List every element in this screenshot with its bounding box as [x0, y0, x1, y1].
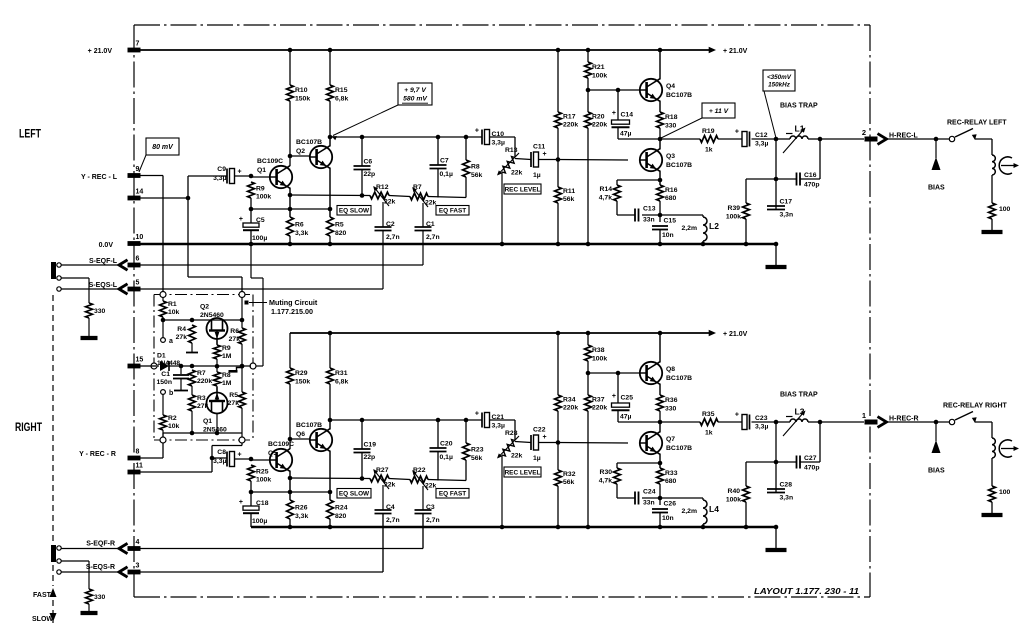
svg-text:R2: R2 [168, 415, 177, 422]
svg-text:R19: R19 [702, 128, 715, 135]
svg-text:+: + [543, 151, 547, 158]
svg-text:REC LEVEL: REC LEVEL [505, 469, 541, 476]
svg-text:220k: 220k [563, 405, 578, 412]
svg-text:EQ FAST: EQ FAST [439, 491, 466, 498]
svg-text:+: + [735, 129, 739, 136]
svg-text:R28: R28 [505, 430, 518, 437]
svg-text:R8: R8 [471, 164, 480, 171]
svg-text:R14: R14 [600, 186, 613, 193]
svg-text:BC109C: BC109C [268, 441, 294, 448]
svg-text:Q1: Q1 [203, 418, 212, 425]
svg-text:R18: R18 [665, 114, 678, 121]
svg-text:2,7n: 2,7n [386, 234, 400, 241]
svg-text:C1: C1 [161, 371, 170, 378]
svg-text:C16: C16 [804, 172, 817, 179]
svg-text:C15: C15 [664, 218, 677, 225]
svg-text:680: 680 [665, 195, 677, 202]
svg-text:Q2: Q2 [296, 148, 305, 155]
svg-text:8: 8 [136, 449, 140, 456]
svg-text:R39: R39 [728, 205, 741, 212]
svg-text:L3: L3 [795, 407, 805, 417]
svg-text:150k: 150k [295, 379, 310, 386]
svg-text:LAYOUT 1.177. 230 - 11: LAYOUT 1.177. 230 - 11 [754, 587, 860, 596]
svg-text:C1: C1 [426, 221, 435, 228]
svg-text:R7: R7 [197, 370, 206, 377]
svg-text:2,7n: 2,7n [426, 517, 440, 524]
svg-text:1N4448: 1N4448 [157, 360, 180, 367]
svg-text:R34: R34 [563, 397, 576, 404]
svg-text:REC LEVEL: REC LEVEL [505, 186, 541, 193]
svg-text:C13: C13 [643, 206, 656, 213]
svg-text:4,7k: 4,7k [599, 195, 612, 202]
svg-text:56k: 56k [471, 455, 483, 462]
svg-text:330: 330 [665, 123, 677, 130]
svg-text:Q5: Q5 [268, 450, 277, 457]
svg-text:R21: R21 [592, 64, 605, 71]
svg-text:R40: R40 [728, 488, 741, 495]
svg-text:56k: 56k [563, 196, 575, 203]
svg-text:BC107B: BC107B [296, 139, 322, 146]
svg-text:33n: 33n [643, 500, 655, 507]
svg-text:C12: C12 [755, 132, 768, 139]
svg-text:R24: R24 [335, 505, 348, 512]
svg-text:S-EQF-L: S-EQF-L [89, 258, 118, 265]
svg-text:R12: R12 [376, 184, 389, 191]
svg-text:C22: C22 [533, 427, 546, 434]
svg-text:R16: R16 [665, 187, 678, 194]
svg-text:R10: R10 [295, 87, 308, 94]
svg-text:470p: 470p [804, 182, 820, 189]
svg-text:330: 330 [94, 308, 106, 315]
svg-text:1M: 1M [222, 380, 232, 387]
svg-text:EQ SLOW: EQ SLOW [339, 491, 370, 498]
svg-text:C7: C7 [440, 158, 449, 165]
svg-text:27k: 27k [228, 400, 240, 407]
svg-text:56k: 56k [471, 172, 483, 179]
svg-text:C18: C18 [256, 500, 269, 507]
svg-text:2,2m: 2,2m [682, 508, 698, 515]
svg-text:R5: R5 [229, 392, 238, 399]
svg-text:a: a [169, 338, 173, 345]
svg-text:0.0V: 0.0V [99, 242, 114, 249]
svg-text:RIGHT: RIGHT [15, 420, 42, 434]
svg-text:R9: R9 [256, 186, 265, 193]
svg-text:R37: R37 [592, 397, 605, 404]
svg-text:<350mV: <350mV [767, 74, 792, 81]
svg-text:C26: C26 [664, 501, 677, 508]
svg-text:330: 330 [665, 406, 677, 413]
svg-text:0,1µ: 0,1µ [440, 454, 453, 461]
svg-text:2N5460: 2N5460 [200, 312, 224, 319]
svg-text:220k: 220k [197, 378, 212, 385]
svg-text:BC107B: BC107B [666, 445, 692, 452]
svg-text:C4: C4 [386, 504, 395, 511]
svg-text:FAST: FAST [33, 592, 52, 599]
svg-text:S-EQF-R: S-EQF-R [86, 541, 115, 548]
svg-text:R33: R33 [665, 470, 678, 477]
svg-text:27k: 27k [229, 336, 241, 343]
svg-text:BIAS TRAP: BIAS TRAP [780, 103, 818, 110]
svg-text:Y - REC - L: Y - REC - L [81, 174, 118, 181]
svg-text:BC107B: BC107B [666, 375, 692, 382]
svg-text:3,3µ: 3,3µ [755, 424, 768, 431]
svg-text:10k: 10k [168, 423, 180, 430]
svg-text:1k: 1k [705, 430, 713, 437]
svg-text:R36: R36 [665, 397, 678, 404]
svg-text:11: 11 [136, 463, 144, 470]
svg-text:+: + [239, 499, 243, 506]
svg-text:+: + [238, 452, 242, 459]
svg-text:C19: C19 [364, 442, 377, 449]
svg-text:Muting Circuit: Muting Circuit [269, 298, 318, 307]
svg-text:R3: R3 [197, 395, 206, 402]
svg-text:2,2m: 2,2m [682, 225, 698, 232]
svg-text:H-REC-L: H-REC-L [889, 132, 918, 139]
svg-text:D1: D1 [157, 353, 166, 360]
svg-text:Q4: Q4 [666, 83, 675, 90]
svg-text:C17: C17 [780, 199, 793, 206]
svg-text:100k: 100k [592, 356, 607, 363]
svg-text:R31: R31 [335, 370, 348, 377]
svg-text:R13: R13 [505, 147, 518, 154]
svg-text:1.177.215.00: 1.177.215.00 [271, 307, 313, 316]
svg-text:3: 3 [136, 563, 140, 570]
svg-text:680: 680 [665, 478, 677, 485]
svg-text:REC-RELAY RIGHT: REC-RELAY RIGHT [943, 403, 1008, 410]
svg-text:SLOW: SLOW [32, 616, 53, 623]
svg-text:+ 9,7 V: + 9,7 V [404, 87, 427, 94]
svg-text:C20: C20 [440, 441, 453, 448]
svg-text:Q7: Q7 [666, 436, 675, 443]
svg-text:3,3k: 3,3k [295, 230, 308, 237]
svg-text:3,3µ: 3,3µ [492, 423, 505, 430]
svg-text:Y - REC - R: Y - REC - R [79, 451, 116, 458]
svg-text:R6: R6 [295, 222, 304, 229]
svg-text:1µ: 1µ [533, 172, 541, 179]
svg-text:5: 5 [136, 280, 140, 287]
svg-text:b: b [169, 390, 173, 397]
svg-text:Q1: Q1 [257, 167, 266, 174]
svg-text:4,7k: 4,7k [599, 478, 612, 485]
svg-text:+: + [238, 169, 242, 176]
svg-text:47µ: 47µ [620, 131, 632, 138]
svg-text:C11: C11 [533, 144, 545, 151]
svg-text:1M: 1M [222, 353, 232, 360]
svg-text:330: 330 [94, 594, 106, 601]
svg-text:10n: 10n [662, 232, 674, 239]
svg-text:L2: L2 [709, 221, 719, 231]
svg-text:100k: 100k [256, 477, 271, 484]
svg-text:22k: 22k [425, 200, 437, 207]
svg-text:33n: 33n [643, 217, 655, 224]
svg-text:100k: 100k [726, 214, 741, 221]
svg-text:BIAS TRAP: BIAS TRAP [780, 392, 818, 399]
svg-text:R17: R17 [563, 114, 576, 121]
svg-text:R7: R7 [413, 184, 422, 191]
svg-text:R8: R8 [222, 372, 231, 379]
svg-text:Q6: Q6 [296, 431, 305, 438]
svg-text:100: 100 [999, 206, 1011, 213]
svg-text:3,3µ: 3,3µ [492, 140, 505, 147]
svg-text:L1: L1 [795, 124, 805, 134]
svg-text:+: + [543, 434, 547, 441]
svg-text:BC109C: BC109C [257, 158, 283, 165]
svg-text:C5: C5 [256, 217, 265, 224]
svg-text:C25: C25 [621, 395, 634, 402]
svg-text:10k: 10k [168, 309, 180, 316]
svg-text:Q3: Q3 [666, 153, 675, 160]
svg-text:C8: C8 [217, 449, 226, 456]
svg-text:150k: 150k [295, 96, 310, 103]
svg-text:22k: 22k [511, 170, 523, 177]
svg-text:0,1µ: 0,1µ [440, 171, 453, 178]
svg-text:L4: L4 [709, 504, 719, 514]
svg-text:+: + [735, 412, 739, 419]
svg-text:+: + [475, 411, 479, 418]
svg-text:150kHz: 150kHz [768, 82, 791, 89]
svg-text:470p: 470p [804, 465, 820, 472]
svg-text:R27: R27 [376, 467, 389, 474]
svg-text:22k: 22k [425, 483, 437, 490]
svg-text:22k: 22k [384, 199, 396, 206]
svg-text:H-REC-R: H-REC-R [889, 415, 919, 422]
svg-text:15: 15 [136, 357, 144, 364]
svg-text:R25: R25 [256, 469, 269, 476]
svg-text:C6: C6 [364, 159, 373, 166]
svg-text:220k: 220k [592, 122, 607, 129]
svg-text:R30: R30 [600, 469, 613, 476]
svg-text:C2: C2 [386, 221, 395, 228]
svg-text:100k: 100k [256, 194, 271, 201]
svg-text:R38: R38 [592, 347, 605, 354]
svg-text:+ 21.0V: + 21.0V [723, 48, 748, 55]
svg-text:6,8k: 6,8k [335, 379, 348, 386]
svg-text:C9: C9 [217, 166, 226, 173]
svg-text:S-EQS-L: S-EQS-L [89, 282, 118, 289]
svg-text:220k: 220k [592, 405, 607, 412]
svg-text:580 mV: 580 mV [403, 96, 428, 103]
svg-text:C14: C14 [621, 112, 634, 119]
svg-text:10: 10 [136, 234, 144, 241]
svg-text:3,3n: 3,3n [780, 212, 794, 219]
svg-text:C28: C28 [780, 482, 793, 489]
svg-text:R26: R26 [295, 505, 308, 512]
svg-text:+: + [239, 216, 243, 223]
svg-text:R29: R29 [295, 370, 308, 377]
svg-text:6: 6 [136, 256, 140, 263]
svg-text:22p: 22p [364, 454, 376, 461]
svg-text:3,3k: 3,3k [295, 513, 308, 520]
svg-text:R20: R20 [592, 114, 605, 121]
svg-text:3,3µ: 3,3µ [213, 458, 226, 465]
svg-text:S-EQS-R: S-EQS-R [86, 564, 115, 571]
svg-text:100k: 100k [592, 73, 607, 80]
svg-text:EQ SLOW: EQ SLOW [339, 208, 370, 215]
svg-text:REC-RELAY LEFT: REC-RELAY LEFT [947, 120, 1007, 127]
svg-text:EQ FAST: EQ FAST [439, 208, 466, 215]
svg-text:150n: 150n [157, 379, 173, 386]
svg-text:C24: C24 [643, 489, 656, 496]
svg-text:+ 21.0V: + 21.0V [723, 331, 748, 338]
svg-text:100k: 100k [726, 497, 741, 504]
svg-text:820: 820 [335, 230, 347, 237]
svg-text:C3: C3 [426, 504, 435, 511]
svg-text:R15: R15 [335, 87, 348, 94]
svg-text:22k: 22k [384, 482, 396, 489]
svg-text:Q2: Q2 [200, 304, 209, 311]
svg-text:BIAS: BIAS [928, 185, 945, 192]
svg-text:R4: R4 [177, 326, 186, 333]
svg-text:R11: R11 [563, 188, 575, 195]
svg-text:220k: 220k [563, 122, 578, 129]
svg-text:3,3n: 3,3n [780, 495, 794, 502]
svg-text:+ 11 V: + 11 V [709, 108, 730, 115]
svg-text:7: 7 [136, 41, 140, 48]
svg-text:+: + [612, 393, 616, 400]
svg-text:R6: R6 [230, 328, 239, 335]
svg-text:BC107B: BC107B [296, 422, 322, 429]
svg-text:R35: R35 [702, 411, 715, 418]
svg-text:1k: 1k [705, 147, 713, 154]
svg-text:6,8k: 6,8k [335, 96, 348, 103]
svg-text:100µ: 100µ [252, 235, 267, 242]
svg-text:BC107B: BC107B [666, 162, 692, 169]
svg-text:C23: C23 [755, 415, 768, 422]
svg-text:27k: 27k [176, 334, 188, 341]
svg-text:BIAS: BIAS [928, 468, 945, 475]
svg-text:+: + [612, 110, 616, 117]
svg-text:80 mV: 80 mV [152, 144, 174, 151]
svg-text:Q8: Q8 [666, 366, 675, 373]
svg-text:LEFT: LEFT [19, 127, 41, 141]
svg-text:14: 14 [136, 189, 144, 196]
svg-text:1µ: 1µ [533, 455, 541, 462]
svg-text:100µ: 100µ [252, 518, 267, 525]
svg-text:+: + [475, 128, 479, 135]
svg-text:100: 100 [999, 489, 1011, 496]
svg-text:BC107B: BC107B [666, 92, 692, 99]
svg-text:+ 21.0V: + 21.0V [88, 48, 113, 55]
svg-text:1: 1 [862, 411, 866, 420]
svg-text:2,7n: 2,7n [386, 517, 400, 524]
svg-text:R32: R32 [563, 471, 576, 478]
svg-text:4: 4 [136, 539, 140, 546]
svg-text:R23: R23 [471, 447, 484, 454]
svg-text:R5: R5 [335, 222, 344, 229]
svg-text:56k: 56k [563, 479, 575, 486]
svg-text:2: 2 [862, 128, 866, 137]
svg-text:22k: 22k [511, 453, 523, 460]
svg-text:2,7n: 2,7n [426, 234, 440, 241]
svg-text:22p: 22p [364, 171, 376, 178]
svg-text:820: 820 [335, 513, 347, 520]
svg-text:R1: R1 [168, 301, 177, 308]
svg-text:R22: R22 [413, 467, 426, 474]
svg-text:3,3µ: 3,3µ [755, 141, 768, 148]
svg-text:10n: 10n [662, 515, 674, 522]
svg-text:C27: C27 [804, 455, 817, 462]
svg-text:47µ: 47µ [620, 414, 632, 421]
svg-text:R9: R9 [222, 345, 231, 352]
